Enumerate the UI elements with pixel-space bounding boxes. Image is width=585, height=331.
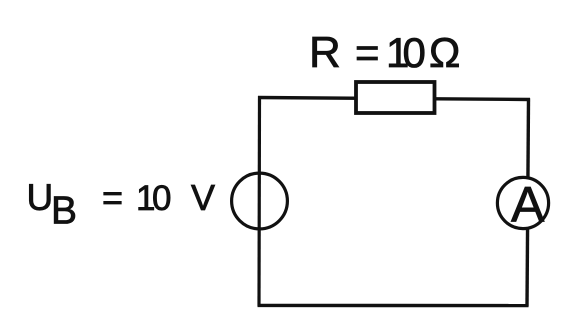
wire bottom xyxy=(258,304,529,308)
voltage source UB xyxy=(232,173,288,229)
svg-text:Ω: Ω xyxy=(429,29,460,76)
svg-text:=: = xyxy=(355,29,380,76)
svg-text:B: B xyxy=(51,190,77,233)
svg-text:A: A xyxy=(511,177,545,233)
label UB = 10 V xyxy=(27,177,216,233)
svg-text:V: V xyxy=(191,177,215,218)
label R = 10 Ohm xyxy=(309,28,460,77)
wire right xyxy=(527,98,529,306)
wire top xyxy=(258,98,530,100)
resistor R xyxy=(356,82,435,113)
svg-text:=: = xyxy=(102,177,123,218)
svg-text:U: U xyxy=(27,177,54,218)
svg-text:0: 0 xyxy=(152,179,171,218)
svg-text:0: 0 xyxy=(403,29,426,76)
wire left xyxy=(257,96,261,306)
ammeter A xyxy=(497,177,548,233)
svg-text:R: R xyxy=(309,28,341,77)
